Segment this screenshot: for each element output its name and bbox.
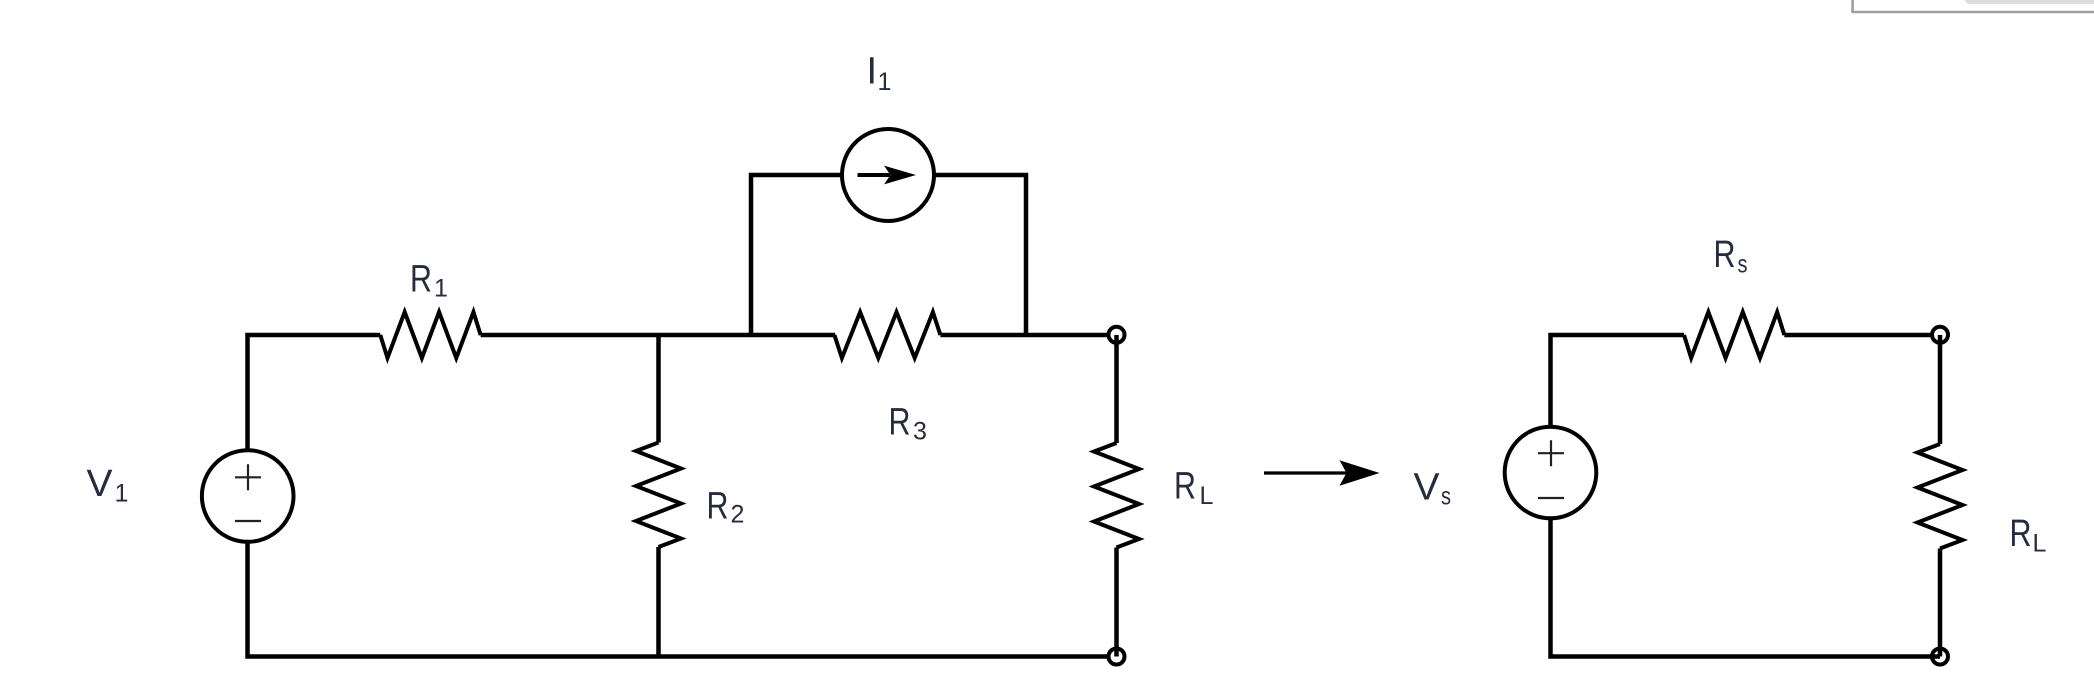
- svg-text:R: R: [1174, 466, 1196, 508]
- svg-text:3: 3: [913, 418, 927, 446]
- svg-text:1: 1: [434, 275, 448, 303]
- svg-text:R: R: [410, 259, 432, 301]
- svg-text:s: s: [1441, 483, 1451, 511]
- svg-text:R: R: [2010, 513, 2032, 555]
- svg-text:2: 2: [731, 501, 745, 529]
- svg-text:I: I: [867, 51, 878, 93]
- svg-text:R: R: [1714, 234, 1736, 276]
- svg-text:1: 1: [878, 68, 892, 96]
- svg-text:R: R: [707, 486, 729, 528]
- svg-text:L: L: [2033, 530, 2047, 558]
- svg-text:V: V: [1414, 467, 1441, 509]
- svg-text:R: R: [889, 402, 911, 444]
- svg-text:1: 1: [115, 480, 129, 508]
- svg-text:L: L: [1200, 482, 1214, 510]
- svg-text:s: s: [1738, 251, 1748, 279]
- svg-text:V: V: [87, 463, 114, 505]
